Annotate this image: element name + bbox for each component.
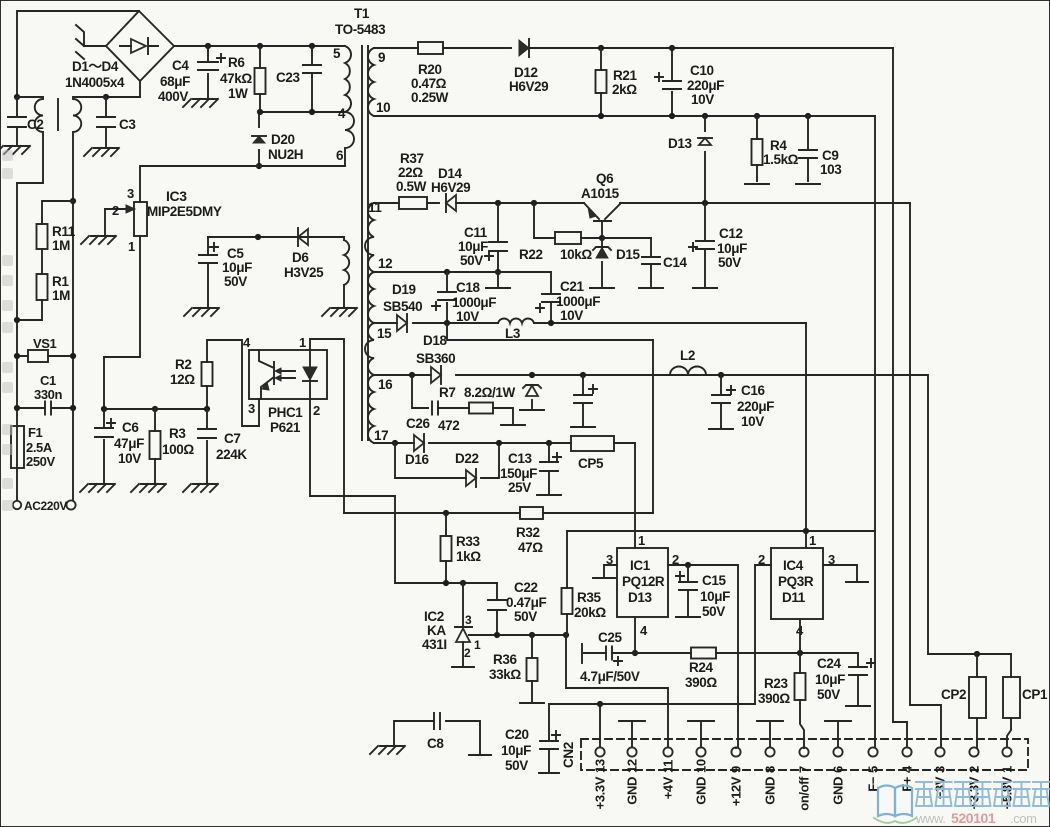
svg-text:1000μF: 1000μF	[556, 294, 600, 309]
CN2 ground bar	[769, 723, 771, 747]
resistor R11	[37, 224, 48, 249]
wire pin12 rail	[374, 272, 551, 294]
svg-text:D18: D18	[423, 333, 447, 348]
terminal AC220V right	[66, 500, 75, 509]
ground below C9	[796, 183, 820, 185]
wire pin7 stub	[803, 747, 805, 750]
scan artifact smudges	[2, 150, 13, 511]
line filter choke core	[57, 99, 59, 130]
svg-text:10V: 10V	[456, 309, 479, 324]
wire bridge bottom to node	[106, 81, 140, 97]
svg-text:TO-5483: TO-5483	[335, 22, 386, 37]
svg-text:3: 3	[933, 766, 948, 773]
svg-text:C26: C26	[406, 416, 430, 431]
node C18 top	[444, 269, 450, 275]
svg-text:4: 4	[900, 765, 915, 773]
wire bus F- from pin10 rail	[874, 116, 876, 531]
svg-text:R32: R32	[516, 525, 540, 540]
resistor R33	[445, 513, 447, 583]
secondary winding pins 12-15	[368, 272, 374, 323]
capacitor C8	[394, 721, 480, 753]
wire R32 row	[344, 512, 653, 514]
svg-text:D6: D6	[292, 250, 309, 265]
svg-text:D20: D20	[271, 132, 295, 147]
node VS1 left	[14, 353, 20, 359]
svg-text:R37: R37	[400, 151, 424, 166]
svg-text:C24: C24	[817, 656, 841, 671]
svg-text:AC220V: AC220V	[24, 499, 67, 513]
resistor R36	[531, 635, 533, 701]
resistor R20	[418, 42, 443, 54]
svg-text:220μF: 220μF	[687, 78, 724, 93]
svg-text:431I: 431I	[422, 637, 447, 652]
svg-text:520101: 520101	[951, 810, 996, 826]
diode D18	[431, 367, 441, 383]
capacitor C18 electrolytic	[446, 272, 448, 323]
svg-text:8.2Ω/1W: 8.2Ω/1W	[464, 385, 515, 400]
capacitor C9	[807, 116, 809, 181]
svg-text:3: 3	[127, 186, 134, 201]
node R21 bottom	[598, 113, 604, 119]
svg-text:CN2: CN2	[561, 742, 576, 768]
svg-text:H3V25: H3V25	[284, 265, 324, 280]
wire CP1 lead bottom	[1007, 718, 1011, 748]
node C21 bottom	[548, 320, 554, 326]
resistor R2	[202, 362, 213, 386]
node Q6 base	[599, 235, 605, 241]
bridge rectifier D1-D4	[106, 11, 174, 81]
node C10 bottom	[669, 113, 675, 119]
resistor R7	[469, 403, 493, 414]
capacitor C13 electrolytic	[548, 443, 550, 493]
wire R6/C23 bottom to transformer pin 4	[260, 111, 345, 113]
svg-text:0.5W: 0.5W	[396, 179, 427, 194]
node IC2 cathode	[460, 580, 466, 586]
node D13 top	[702, 113, 708, 119]
svg-text:3: 3	[465, 613, 472, 627]
svg-text:.com: .com	[1010, 811, 1037, 826]
svg-text:www.: www.	[915, 811, 945, 826]
svg-text:PQ3R: PQ3R	[778, 574, 814, 589]
svg-text:KA: KA	[427, 623, 446, 638]
node Q6 collector rail to D13/C12	[702, 200, 708, 206]
svg-text:CP1: CP1	[1022, 687, 1048, 702]
inductor L3	[498, 319, 534, 323]
svg-text:0.47μF: 0.47μF	[506, 595, 547, 610]
ground below C7	[183, 484, 218, 492]
svg-text:R4: R4	[770, 138, 787, 153]
svg-text:MIP2E5DMY: MIP2E5DMY	[147, 204, 222, 219]
svg-text:2: 2	[967, 766, 982, 773]
svg-text:100Ω: 100Ω	[162, 442, 194, 457]
resistor R24	[691, 648, 716, 659]
node R33 top	[443, 510, 449, 516]
CN2 pin 6 GND	[833, 747, 842, 756]
capacitor C2	[16, 97, 18, 145]
inductor L2	[670, 367, 706, 375]
svg-text:2: 2	[464, 646, 471, 660]
node D16 anode	[392, 440, 398, 446]
svg-text:5: 5	[866, 766, 881, 773]
ground below C4	[183, 99, 218, 107]
CN2 pin 7 on/off	[799, 747, 808, 756]
svg-text:R7: R7	[439, 385, 455, 400]
wire top rail from left column to bridge	[17, 11, 139, 97]
svg-text:390Ω: 390Ω	[685, 675, 717, 690]
wire L2 rail down right side	[870, 375, 928, 654]
node C13 top	[546, 440, 552, 446]
resistor R35	[566, 531, 568, 635]
wire feedback from node 446/323 down right to R32 row	[447, 323, 653, 513]
svg-text:+4V: +4V	[661, 776, 676, 799]
wire IC2 ref row	[469, 634, 566, 636]
svg-text:C15: C15	[702, 573, 726, 588]
svg-text:D13: D13	[668, 136, 692, 151]
svg-text:3: 3	[248, 401, 255, 416]
node C10 top	[669, 45, 675, 51]
svg-text:C4: C4	[172, 58, 189, 73]
node C1 right	[70, 405, 76, 411]
svg-text:D15: D15	[616, 247, 640, 262]
wire IC4 pin4 down	[799, 619, 801, 653]
svg-text:R22: R22	[519, 247, 543, 262]
svg-text:13: 13	[593, 759, 608, 773]
svg-text:1: 1	[1000, 766, 1015, 773]
wire pin10 rail	[374, 115, 875, 117]
ground below C24	[846, 705, 870, 707]
svg-text:R33: R33	[456, 534, 480, 549]
wire R22 right to base node	[581, 237, 602, 239]
svg-text:7: 7	[797, 766, 812, 773]
svg-text:NU2H: NU2H	[268, 147, 303, 162]
node zener top	[529, 372, 535, 378]
svg-text:50V: 50V	[718, 255, 741, 270]
svg-text:GND: GND	[694, 777, 709, 805]
CN2 pin 11 +4V	[663, 747, 672, 756]
wire bus -3V from Q6 rail	[910, 203, 941, 748]
ground below R4	[745, 183, 769, 185]
svg-text:9: 9	[729, 766, 744, 773]
resistor R1	[37, 274, 48, 300]
IC4 PQ3RD11 box	[771, 548, 823, 619]
ground below C17	[571, 426, 595, 428]
svg-text:472: 472	[438, 418, 459, 433]
wire D22 loop	[395, 443, 499, 478]
svg-text:T1: T1	[354, 6, 370, 21]
secondary winding pins 15-16	[365, 323, 374, 375]
svg-text:1: 1	[809, 533, 816, 548]
svg-text:C22: C22	[514, 580, 538, 595]
svg-text:D14: D14	[438, 166, 462, 181]
wire base node to C14	[602, 238, 651, 257]
svg-text:150μF: 150μF	[500, 466, 537, 481]
svg-text:2kΩ: 2kΩ	[612, 82, 637, 97]
IC3 pin 2 ground	[104, 209, 106, 234]
svg-text:H6V29: H6V29	[431, 180, 470, 195]
fuse F1	[11, 426, 24, 468]
diode D22	[466, 470, 476, 486]
svg-text:C10: C10	[690, 63, 714, 78]
node R1 to left rail	[14, 317, 20, 323]
secondary winding pins 9-10	[368, 48, 374, 116]
node VS1 right	[70, 353, 76, 359]
ground below R3	[131, 484, 166, 492]
wire pin17 rail	[374, 442, 635, 444]
diode D14	[446, 195, 456, 211]
svg-text:R2: R2	[175, 357, 191, 372]
node R35 bottom	[563, 632, 569, 638]
svg-text:IC3: IC3	[166, 188, 187, 204]
resistor R37	[399, 197, 427, 209]
IC1 PQ12RD13 box	[617, 548, 668, 617]
transistor Q6 A1015	[584, 203, 621, 219]
svg-text:C18: C18	[456, 280, 480, 295]
wire IC1 pin3 ground	[604, 565, 617, 576]
svg-text:CP2: CP2	[941, 687, 966, 702]
svg-text:−3V: −3V	[933, 776, 948, 799]
CN2 pin 10 GND	[696, 747, 705, 756]
diode D12	[519, 40, 529, 56]
svg-text:C20: C20	[505, 727, 529, 742]
svg-text:50V: 50V	[505, 758, 528, 773]
capacitor C11 electrolytic	[497, 203, 499, 272]
wire IC4 pin1 row	[567, 530, 875, 532]
capacitor C20 electrolytic	[548, 704, 550, 772]
svg-text:9: 9	[378, 50, 385, 65]
wire C25 row through R24 to C24	[635, 653, 858, 667]
svg-text:P621: P621	[270, 420, 301, 435]
svg-text:50V: 50V	[514, 609, 537, 624]
wire pin9 rail	[374, 47, 893, 49]
svg-text:5: 5	[333, 46, 341, 61]
svg-text:50V: 50V	[702, 604, 725, 619]
svg-text:C7: C7	[224, 431, 240, 446]
svg-text:1W: 1W	[228, 86, 248, 101]
svg-text:C5: C5	[227, 246, 244, 261]
svg-text:10μF: 10μF	[700, 589, 730, 604]
svg-text:20kΩ: 20kΩ	[574, 605, 606, 620]
node R33 bottom	[443, 580, 449, 586]
svg-text:SB540: SB540	[383, 299, 422, 314]
svg-text:10V: 10V	[741, 414, 764, 429]
svg-text:PQ12R: PQ12R	[622, 574, 665, 589]
svg-text:2: 2	[313, 403, 320, 418]
wire left AC rail down	[16, 183, 18, 501]
svg-text:Q6: Q6	[596, 171, 614, 186]
svg-text:6: 6	[831, 766, 846, 773]
svg-text:6: 6	[336, 148, 344, 163]
CN2 pin 9 +12V	[731, 747, 740, 756]
ground C8 left	[370, 746, 405, 754]
node C6	[101, 406, 107, 412]
svg-text:C25: C25	[598, 630, 622, 645]
capacitor C22	[488, 600, 506, 610]
capacitor C3	[105, 97, 107, 147]
wire pin16 rail	[374, 374, 870, 376]
wire +3.3V row	[549, 703, 755, 705]
svg-text:10μF: 10μF	[717, 241, 747, 256]
IC3 MIP2E5DMY body	[134, 202, 147, 236]
resistor R6	[259, 46, 261, 112]
svg-text:D19: D19	[392, 282, 416, 297]
node L2 to C16	[718, 372, 724, 378]
capacitor C5 electrolytic	[207, 237, 209, 308]
svg-text:1kΩ: 1kΩ	[456, 549, 481, 564]
wire CP2 leads	[976, 654, 978, 748]
node C11 bottom on pin12 rail	[495, 269, 501, 275]
ground below C13	[537, 494, 561, 496]
ground below aux winding	[322, 308, 357, 316]
svg-text:25V: 25V	[508, 480, 531, 495]
wire C5 top rail to aux winding	[208, 236, 340, 238]
svg-text:C16: C16	[741, 383, 765, 398]
PHC1 light arrows	[282, 371, 295, 378]
capacitor C10 electrolytic	[671, 48, 673, 116]
watermark book icon	[878, 786, 895, 817]
wire R1 bottom to left rail	[17, 300, 42, 320]
svg-text:C6: C6	[122, 420, 139, 435]
wire IC1 pin2 to 12V riser	[668, 565, 738, 748]
svg-text:10V: 10V	[118, 451, 141, 466]
svg-text:390Ω: 390Ω	[758, 691, 790, 706]
svg-text:R1: R1	[52, 274, 69, 289]
node CP2 top	[974, 651, 980, 657]
svg-text:4: 4	[243, 335, 251, 350]
terminal AC220V left	[13, 501, 21, 509]
svg-text:1.5kΩ: 1.5kΩ	[763, 152, 799, 167]
node choke to R11 branch	[70, 198, 76, 204]
svg-text:15: 15	[377, 326, 392, 341]
wire IC3 pin3 rail to transformer pin 6	[140, 166, 345, 202]
svg-text:47μF: 47μF	[114, 436, 144, 451]
svg-text:D1～D4: D1～D4	[72, 59, 119, 74]
resistor R32	[520, 507, 543, 519]
svg-text:GND: GND	[625, 777, 640, 805]
watermark chinese characters	[916, 782, 932, 806]
svg-text:+3.3V: +3.3V	[593, 776, 608, 809]
node R22 branch	[531, 200, 537, 206]
resistor R3	[154, 409, 156, 484]
svg-text:R23: R23	[764, 676, 788, 691]
node R23 top	[797, 650, 803, 656]
wire IC4 pin3 ground	[823, 565, 857, 580]
wire IC4 pin2 to 3.3V row	[755, 565, 771, 704]
CN2 pin 12 GND	[627, 747, 636, 756]
jumper CP2	[969, 677, 986, 718]
wire C22 branch	[496, 583, 498, 635]
resistor R21	[600, 48, 602, 116]
line filter choke right winding	[73, 97, 106, 201]
node C23	[309, 43, 315, 49]
wire R22 left lead	[534, 203, 555, 238]
capacitor C14	[642, 257, 660, 264]
node at C3 top	[103, 94, 109, 100]
node C4	[205, 43, 211, 49]
wire pin15 rail	[374, 322, 806, 324]
node R36 top	[529, 632, 535, 638]
diode D20	[258, 112, 260, 166]
ground below C6	[80, 484, 115, 492]
svg-text:50V: 50V	[817, 687, 840, 702]
svg-text:10μF: 10μF	[458, 239, 488, 254]
CN2 pin 5 F−	[868, 747, 877, 756]
svg-text:10kΩ: 10kΩ	[560, 247, 592, 262]
svg-text:10μF: 10μF	[815, 672, 845, 687]
wire bus F+ from pin9 rail	[893, 48, 907, 748]
svg-text:12: 12	[378, 256, 392, 271]
svg-text:IC2: IC2	[424, 609, 444, 624]
diode D19	[397, 315, 407, 331]
svg-text:1: 1	[128, 239, 135, 254]
ground below C16	[709, 428, 733, 430]
secondary winding pins 11-12	[365, 203, 374, 272]
ground below C5	[184, 308, 219, 316]
capacitor C7	[206, 409, 208, 484]
PHC1 LED	[309, 350, 311, 399]
svg-text:16: 16	[378, 377, 393, 392]
node D20 bottom	[256, 163, 262, 169]
node C9 top	[805, 113, 811, 119]
ground below R7	[501, 424, 525, 426]
wire pin11 rail	[374, 202, 910, 204]
svg-text:IC4: IC4	[783, 558, 804, 573]
svg-text:C21: C21	[560, 279, 584, 294]
node IC4 pin1	[803, 528, 809, 534]
capacitor C25	[581, 644, 583, 663]
wire PHC1 pin1 to R32 row	[310, 339, 344, 513]
capacitor C1	[17, 407, 73, 409]
ground below C3	[84, 148, 119, 156]
svg-text:1: 1	[638, 533, 645, 548]
ground below C14	[639, 287, 663, 289]
svg-text:4: 4	[640, 623, 648, 638]
node C5/D6 rail to PHC1 pin4	[255, 234, 261, 240]
resistor R4	[756, 116, 758, 181]
svg-text:R11: R11	[52, 224, 76, 239]
ground below D15	[590, 287, 614, 289]
svg-text:F1: F1	[28, 425, 43, 440]
CN2 pin 2 +3.3V	[969, 747, 978, 756]
wire bridge output rail to transformer pin 5	[174, 45, 345, 47]
transformer core	[362, 46, 368, 440]
svg-text:11: 11	[661, 760, 676, 773]
svg-text:IC1: IC1	[630, 558, 651, 573]
svg-text:C8: C8	[427, 736, 444, 751]
line filter choke left winding	[17, 97, 43, 183]
svg-text:A1015: A1015	[581, 186, 620, 201]
svg-text:C14: C14	[663, 255, 687, 270]
svg-text:12Ω: 12Ω	[170, 372, 195, 387]
svg-text:1N4005x4: 1N4005x4	[65, 75, 125, 90]
wire R7 right to ground	[493, 408, 513, 423]
svg-text:68μF: 68μF	[160, 74, 190, 89]
svg-text:10V: 10V	[560, 308, 583, 323]
svg-text:17: 17	[374, 428, 388, 443]
ground below C20	[539, 772, 559, 774]
svg-text:SB360: SB360	[416, 351, 455, 366]
wire IC3 pin1 down to C6 row	[104, 236, 140, 409]
node cap C17 top	[580, 372, 586, 378]
node at left rail top	[14, 94, 20, 100]
wire L3 rail down right side to IC4 pin1 row	[805, 323, 807, 531]
svg-text:H6V29: H6V29	[509, 79, 548, 94]
jumper CP5	[571, 436, 614, 451]
CN2 ground bar	[700, 723, 702, 747]
node R4 top	[754, 113, 760, 119]
wire bus +3.3V out to CP1 CP2	[928, 654, 1011, 677]
svg-text:10μF: 10μF	[501, 743, 531, 758]
svg-text:on/off: on/off	[797, 776, 812, 811]
